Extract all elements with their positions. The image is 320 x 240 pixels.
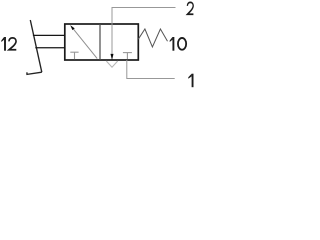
port 1 line — [127, 60, 175, 79]
label 2 — [187, 2, 193, 14]
spring — [138, 29, 167, 47]
label 12 — [1, 37, 6, 51]
label 1 — [188, 74, 193, 88]
lever rod bottom — [35, 47, 65, 49]
exhaust triangle — [106, 61, 117, 67]
port 2 line — [112, 8, 176, 25]
label 10 — [170, 37, 175, 51]
pedal foot plate — [27, 72, 42, 74]
blocked port T left box — [70, 51, 78, 53]
flow path left box diagonal — [73, 28, 97, 58]
arrowhead left box — [70, 25, 75, 30]
blocked port T right box — [123, 52, 132, 54]
pedal lever shaft — [30, 20, 42, 72]
arrowhead right box — [111, 54, 114, 60]
lever rod top — [33, 34, 65, 36]
valve body divider — [99, 24, 101, 60]
valve body outer box — [65, 24, 139, 60]
flow path right box (2 to exhaust) — [111, 24, 113, 54]
